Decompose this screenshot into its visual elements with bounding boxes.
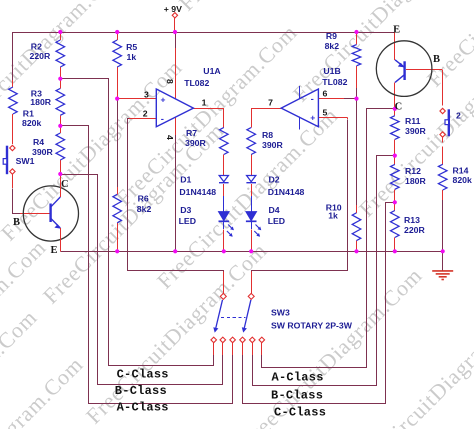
svg-text:390R: 390R [185, 138, 206, 148]
svg-text:R9: R9 [326, 31, 337, 41]
svg-text:B-Class: B-Class [115, 384, 167, 398]
svg-text:E: E [393, 25, 400, 36]
svg-text:390R: 390R [262, 140, 283, 150]
svg-text:A-Class: A-Class [117, 401, 169, 415]
svg-text:3: 3 [144, 90, 149, 100]
svg-text:1k: 1k [328, 211, 338, 221]
svg-text:D4: D4 [269, 205, 280, 215]
svg-text:SW1: SW1 [16, 156, 35, 166]
svg-text:390R: 390R [32, 147, 53, 157]
svg-text:R8: R8 [262, 130, 273, 140]
svg-text:8k2: 8k2 [137, 204, 152, 214]
svg-text:C-Class: C-Class [117, 367, 169, 381]
svg-text:TL082: TL082 [184, 78, 209, 88]
svg-text:2: 2 [456, 111, 461, 121]
svg-text:R7: R7 [186, 128, 197, 138]
svg-text:R11: R11 [405, 116, 421, 126]
svg-text:6: 6 [323, 89, 328, 99]
svg-text:B: B [13, 217, 20, 228]
svg-text:LED: LED [268, 216, 285, 226]
svg-text:220R: 220R [30, 51, 51, 61]
svg-text:+: + [161, 94, 166, 104]
svg-text:180R: 180R [405, 176, 426, 186]
svg-text:820k: 820k [453, 175, 472, 185]
svg-text:D1N4148: D1N4148 [179, 187, 216, 197]
svg-text:TL082: TL082 [322, 77, 347, 87]
svg-text:820k: 820k [22, 118, 41, 128]
svg-text:180R: 180R [30, 97, 51, 107]
svg-text:SW3: SW3 [271, 308, 290, 318]
svg-text:E: E [51, 245, 58, 256]
svg-text:R12: R12 [405, 166, 421, 176]
svg-text:-: - [161, 114, 164, 125]
svg-text:A-Class: A-Class [272, 371, 324, 385]
svg-text:C: C [395, 102, 403, 113]
svg-text:+: + [310, 112, 315, 122]
svg-text:4: 4 [165, 135, 175, 140]
svg-text:390R: 390R [405, 126, 426, 136]
svg-text:U1A: U1A [203, 66, 221, 76]
svg-text:R13: R13 [404, 215, 420, 225]
svg-text:2: 2 [143, 109, 148, 119]
svg-text:8k2: 8k2 [325, 41, 340, 51]
svg-text:R4: R4 [33, 137, 44, 147]
svg-text:5: 5 [323, 107, 328, 117]
svg-text:-: - [311, 94, 314, 105]
svg-text:220R: 220R [404, 225, 425, 235]
svg-text:8: 8 [165, 79, 175, 84]
svg-text:7: 7 [268, 97, 273, 107]
svg-text:+ 9V: + 9V [164, 4, 182, 14]
svg-text:C: C [61, 179, 69, 190]
svg-text:C-Class: C-Class [274, 406, 326, 420]
svg-text:1: 1 [202, 97, 207, 107]
svg-text:R6: R6 [138, 194, 149, 204]
svg-text:B: B [433, 54, 440, 65]
svg-text:B-Class: B-Class [271, 388, 323, 402]
svg-text:LED: LED [179, 216, 196, 226]
svg-text:D3: D3 [180, 205, 191, 215]
svg-text:R5: R5 [126, 42, 137, 52]
svg-text:U1B: U1B [323, 66, 340, 76]
svg-text:D1N4148: D1N4148 [268, 187, 305, 197]
svg-text:D1: D1 [180, 175, 191, 185]
svg-text:D2: D2 [269, 175, 280, 185]
svg-text:1k: 1k [127, 52, 137, 62]
svg-text:SW ROTARY 2P-3W: SW ROTARY 2P-3W [271, 320, 353, 330]
